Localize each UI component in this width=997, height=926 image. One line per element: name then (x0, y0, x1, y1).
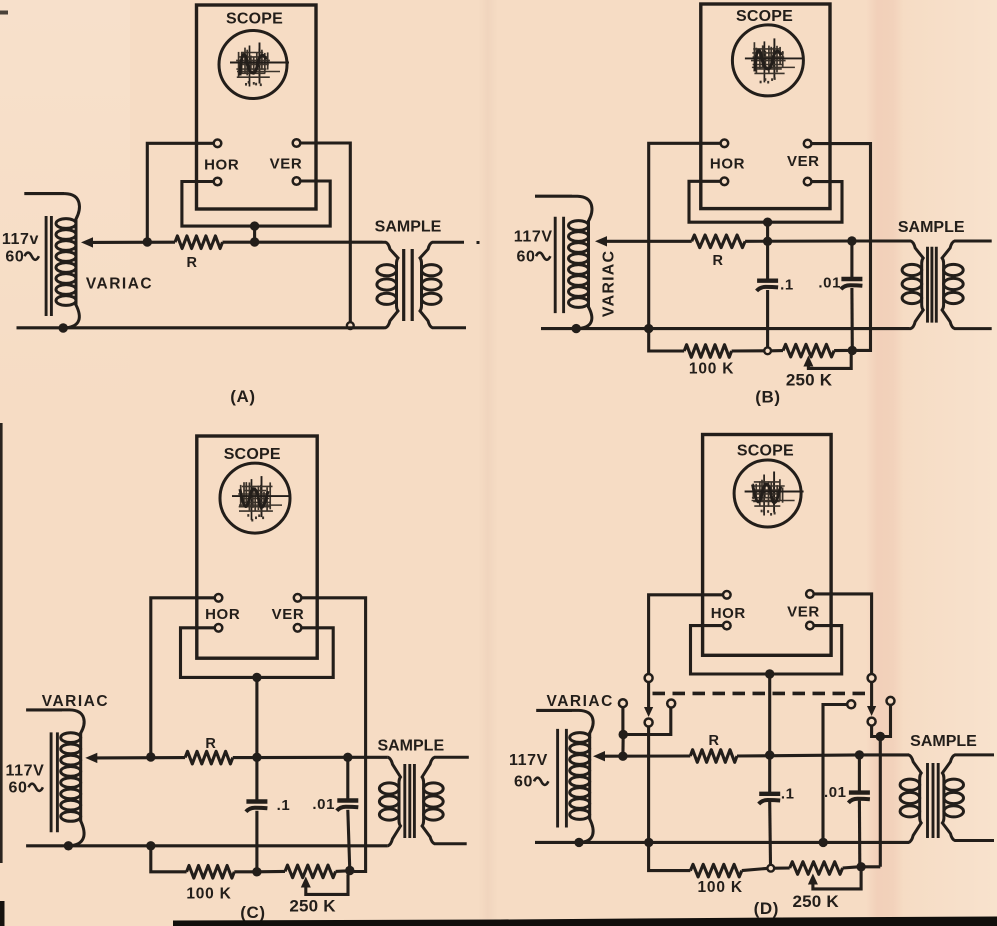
junction S2 branch (D) (876, 732, 885, 741)
wire arrow to resistor R (A) (92, 241, 175, 244)
wire .01 cap top lead (B) (850, 241, 853, 279)
label 60-cycle sine (C) (29, 784, 43, 791)
sample T2 primary winding (B) (902, 241, 923, 329)
junction variac bottom / rail (A) (59, 323, 68, 332)
variac primary stub top (B) (535, 195, 572, 198)
svg-text:(C): (C) (240, 903, 265, 922)
switch S2 pole contact (D) (868, 674, 876, 682)
switch S2 throw contact right (D) (887, 697, 895, 705)
scope U1 (panel A) enclosure (197, 5, 317, 209)
svg-text:HOR: HOR (205, 606, 240, 623)
wire S1 branch down to R wire (D) (621, 735, 624, 757)
wire R to .01 node (D) (737, 755, 859, 756)
junction scope-loop / R wire (A) (250, 237, 259, 246)
resistor 100K (D) (690, 864, 741, 877)
svg-text:HOR: HOR (710, 156, 745, 173)
CRT trace scribble (A) (230, 43, 289, 87)
svg-text:VARIAC: VARIAC (42, 693, 109, 710)
scan artifact: bottom black bar (next page edge) (173, 917, 997, 926)
wire S1 contact connector (D) (623, 708, 671, 735)
junction on inner loop (B) (763, 218, 772, 227)
scan artifact: top-left edge dash (0, 11, 8, 15)
scan artifact: left edge black strip (0, 423, 3, 863)
stray mark right of sample stub (A) (477, 241, 480, 244)
junction .01 cap / R wire (C) (343, 753, 352, 762)
svg-text:VARIAC: VARIAC (601, 250, 618, 317)
junction variac bottom / rail (C) (64, 841, 73, 850)
terminal HOR-top (D) (723, 591, 731, 599)
terminal VER-top (D) (806, 590, 814, 598)
CRT trace scribble (C) (232, 476, 291, 521)
resistor R (B) (692, 235, 745, 248)
250K wiper wire (B) (808, 354, 851, 368)
variac T1 winding (B) (569, 196, 592, 328)
wire junction to 250K (B) (771, 349, 783, 352)
sample T2 secondary winding (A) (420, 242, 466, 328)
bottom rail (A) (17, 326, 385, 329)
wire loop junction down to R wire (C) (255, 677, 258, 757)
bottom rail (B) (541, 327, 909, 330)
terminal HOR-top (C) (215, 594, 223, 602)
wire junction to 250K (C) (257, 870, 285, 873)
terminal VER-bottom (B) (804, 178, 812, 186)
wire inner loop HOR-bottom to VER-bottom (A) (182, 181, 330, 226)
wire 100K to pot (B) (732, 349, 764, 352)
capacitor .1 (C) (246, 802, 268, 812)
variac T1 winding (A) (56, 194, 79, 328)
dashed mechanical link S1-S2 (D) (653, 692, 872, 696)
svg-text:R: R (186, 255, 197, 271)
svg-text:SAMPLE: SAMPLE (375, 218, 442, 235)
svg-text:100 K: 100 K (186, 886, 231, 903)
wire 100K to junction (C) (234, 870, 257, 873)
svg-text:R: R (708, 733, 719, 749)
wire switch S1 down to rail and 100K (D) (649, 727, 691, 871)
wire R to .01 node (C) (233, 756, 348, 759)
scope CRT screen (C) (220, 463, 290, 533)
variac primary stub top (A) (24, 192, 64, 195)
wire loop junction down to R wire (D) (768, 674, 771, 755)
scope CRT screen (D) (734, 460, 801, 527)
variac wiper arrow (D) (593, 751, 605, 761)
250K wiper arrow (C) (301, 877, 311, 888)
junction on inner loop (C) (252, 673, 261, 682)
svg-text:60: 60 (514, 773, 533, 790)
resistor 100K (B) (684, 345, 731, 358)
label 60-cycle sine (A) (25, 253, 39, 260)
CRT trace scribble (B) (745, 38, 804, 83)
junction 250K right / .01 / VER (B) (848, 346, 857, 355)
resistor 100K (C) (187, 866, 235, 879)
svg-text:250 K: 250 K (793, 892, 840, 911)
svg-text:60: 60 (517, 248, 536, 265)
variac wiper arrow (C) (85, 753, 97, 763)
junction .01 cap / R wire (D) (855, 750, 864, 759)
svg-text:VARIAC: VARIAC (547, 693, 614, 710)
svg-text:60: 60 (5, 248, 24, 265)
wire 250K ext to switch branch (D) (861, 865, 880, 868)
scope U3 (panel C) enclosure (197, 436, 317, 658)
wire .01 cap top lead (D) (858, 755, 861, 793)
terminal VER-top (B) (804, 140, 812, 148)
svg-text:100 K: 100 K (698, 879, 743, 896)
wire arrow to resistor R (C) (96, 756, 185, 759)
sample T2 core (D) (928, 763, 939, 838)
terminal HOR-bottom (A) (214, 178, 222, 186)
svg-text:VER: VER (272, 606, 305, 623)
CRT trace scribble (D) (745, 472, 804, 516)
svg-text:117V: 117V (5, 763, 44, 780)
resistor R (A) (175, 236, 223, 249)
svg-text:R: R (205, 736, 216, 752)
junction on inner loop (A) (250, 221, 259, 230)
junction circle VER wire on rail (A) (347, 322, 354, 329)
svg-text:117V: 117V (514, 229, 553, 246)
resistor R (C) (185, 751, 233, 764)
wire .01 cap top lead (C) (346, 757, 349, 800)
sample T2 primary winding (A) (377, 242, 398, 328)
wire .1 cap bottom lead (D) (768, 802, 772, 865)
bottom rail (D) (535, 841, 909, 844)
junction S1 branch / R wire (D) (618, 752, 627, 761)
wire .1 cap top lead (C) (255, 757, 258, 801)
sample T2 core (B) (928, 247, 937, 323)
terminal HOR-bottom (C) (215, 624, 223, 632)
junction circle 100K/250K/.1 (D) (767, 865, 774, 872)
junction scope-loop / R wire (C) (252, 753, 261, 762)
wire VER-top to bottom rail (A) (300, 143, 350, 322)
sample T2 primary winding (D) (900, 755, 921, 843)
wire arrow to resistor R (B) (606, 240, 692, 243)
junction scope-loop / R wire (B) (763, 237, 772, 246)
250K wiper arrow (D) (808, 874, 818, 885)
junction circle 100K/250K/.1 (B) (764, 347, 771, 354)
wire .01 cap bottom lead (C) (348, 810, 350, 871)
variac primary stub top (C) (26, 708, 62, 711)
svg-text:VARIAC: VARIAC (86, 276, 153, 293)
wire S2 right contact down (D) (884, 705, 891, 737)
svg-text:SAMPLE: SAMPLE (898, 219, 965, 236)
wire 250K right end (D) (843, 867, 857, 868)
scan artifact: bottom-left corner mark (0, 901, 5, 926)
wire rail down to 100K (C) (151, 846, 187, 872)
svg-text:.1: .1 (781, 786, 795, 803)
junction rail / 100K stub (C) (146, 841, 155, 850)
svg-text:VER: VER (787, 604, 820, 621)
wire .01 node to sample primary (B) (852, 239, 909, 242)
switch S1 throw contact right (D) (667, 700, 675, 708)
wire 100K to junction (D) (742, 868, 767, 870)
svg-text:.1: .1 (780, 277, 794, 294)
junction 100K/250K/.1 (C) (252, 867, 261, 876)
terminal VER-top (A) (293, 139, 301, 147)
terminal HOR-bottom (B) (721, 178, 729, 186)
junction switch wire / bottom rail (D) (644, 838, 653, 847)
sample T2 primary winding (C) (379, 757, 400, 846)
terminal HOR-top (A) (214, 140, 222, 148)
wire HOR-top to node left (A) (147, 143, 213, 242)
wire loop junction down to R wire (A) (253, 226, 256, 242)
switch S2 throw contact left (D) (847, 700, 855, 708)
svg-text:R: R (712, 253, 723, 269)
250K wiper arrow (B) (803, 356, 813, 367)
wire .1 cap top lead (D) (768, 755, 771, 794)
svg-text:117V: 117V (509, 752, 548, 769)
svg-text:HOR: HOR (711, 605, 746, 622)
variac T1 core (C) (51, 732, 57, 832)
junction S2-left wire / rail (D) (819, 838, 828, 847)
variac wiper arrow (B) (595, 236, 607, 246)
scope CRT screen (A) (219, 31, 287, 99)
scope CRT screen (B) (732, 25, 803, 96)
svg-text:SCOPE: SCOPE (736, 8, 793, 25)
svg-text:250 K: 250 K (289, 897, 336, 916)
wire R to .01 node (B) (745, 239, 852, 242)
label 60-cycle sine (B) (536, 253, 550, 260)
wire junction to 250K (D) (774, 866, 789, 869)
250K wiper wire (D) (813, 871, 861, 889)
capacitor .01 (C) (337, 801, 359, 811)
junction HOR wire / bottom rail (B) (644, 324, 653, 333)
svg-text:250 K: 250 K (786, 371, 833, 390)
capacitor .01 (D) (848, 793, 870, 803)
switch S2 blade arrowhead (D) (867, 706, 876, 716)
wire .01 node to sample primary (D) (859, 753, 909, 756)
wire .01 cap bottom lead (D) (858, 801, 861, 867)
wire .01 node to sample primary (C) (348, 756, 388, 759)
junction on inner loop (D) (765, 669, 774, 678)
svg-text:(B): (B) (755, 388, 780, 407)
svg-text:SCOPE: SCOPE (737, 443, 794, 460)
svg-text:60: 60 (9, 779, 28, 796)
svg-text:.01: .01 (824, 784, 847, 801)
junction .01 cap / R wire (B) (847, 236, 856, 245)
svg-text:SAMPLE: SAMPLE (910, 733, 977, 750)
wire .1 cap bottom lead (B) (766, 290, 769, 347)
svg-text:.01: .01 (818, 275, 841, 292)
wire HOR-top left and down to switch pole (D) (649, 595, 723, 674)
variac T1 core (B) (555, 217, 563, 313)
variac primary stub top (D) (536, 709, 572, 712)
switch S1 blade arrowhead (D) (644, 707, 653, 717)
svg-text:(D): (D) (754, 899, 779, 918)
junction variac bottom / rail (D) (574, 838, 583, 847)
svg-text:SAMPLE: SAMPLE (377, 737, 444, 754)
capacitor .1 (D) (759, 794, 781, 804)
wire HOR-top left and down to R wire (C) (151, 598, 215, 757)
potentiometer 250K element (B) (783, 344, 834, 357)
junction HOR wire / R wire (A) (143, 237, 152, 246)
svg-text:SCOPE: SCOPE (226, 11, 283, 28)
wire .01 cap bottom lead (B) (850, 288, 853, 350)
switch S1 pole contact (D) (645, 674, 653, 682)
wire arrow to resistor R (D) (604, 754, 690, 757)
potentiometer 250K element (D) (790, 862, 843, 875)
wire .1 cap top lead (B) (766, 241, 769, 281)
potentiometer 250K element (C) (285, 865, 336, 878)
wire R to sample primary (A) (223, 241, 383, 244)
sample T2 secondary winding (C) (422, 757, 469, 844)
svg-text:VER: VER (270, 156, 303, 173)
terminal VER-bottom (C) (294, 624, 302, 632)
variac T1 core (A) (46, 216, 51, 316)
junction variac bottom / rail (B) (572, 324, 581, 333)
svg-text:100 K: 100 K (689, 361, 734, 378)
svg-text:.01: .01 (312, 796, 335, 813)
capacitor .1 (B) (757, 281, 779, 291)
bottom rail (C) (26, 844, 388, 847)
terminal VER-bottom (A) (293, 177, 301, 185)
wire inner loop HOR-bottom to VER-bottom (C) (181, 628, 334, 678)
wire S2 left contact to rail (D) (823, 705, 847, 842)
switch S1 throw contact left (D) (619, 699, 627, 707)
wire VER-top right and down to switch S2 pole (D) (814, 594, 872, 674)
terminal VER-bottom (D) (806, 622, 814, 630)
junction 250K right / .01 (D) (856, 862, 865, 871)
capacitor .01 (B) (841, 279, 863, 289)
terminal VER-top (C) (294, 594, 302, 602)
terminal HOR-bottom (D) (723, 622, 731, 630)
terminal HOR-top (B) (721, 140, 729, 148)
wire VER-top right and down (B) (812, 144, 871, 351)
variac wiper arrow (A) (81, 237, 93, 247)
resistor R (D) (690, 750, 737, 763)
junction HOR wire / R wire (C) (146, 752, 155, 761)
svg-text:VER: VER (787, 153, 820, 170)
svg-text:HOR: HOR (204, 157, 239, 174)
variac T1 winding (D) (570, 710, 593, 842)
wire inner loop HOR-bottom to VER-bottom (B) (689, 181, 842, 222)
sample T2 secondary winding (B) (942, 241, 992, 329)
scope U4 (panel D) enclosure (703, 435, 832, 656)
scope U2 (panel B) enclosure (701, 4, 830, 209)
sample T2 core (C) (405, 764, 415, 838)
wire S1 left contact down (D) (621, 707, 624, 734)
wire inner loop HOR-bottom to VER-bottom (D) (691, 626, 842, 674)
junction S1 branch (D) (619, 730, 628, 739)
junction scope-loop / R wire (D) (765, 750, 774, 759)
svg-text:SCOPE: SCOPE (224, 446, 281, 463)
switch S1 blade (D) (647, 682, 650, 707)
svg-text:(A): (A) (230, 387, 255, 406)
wire 250K right end (C) (336, 869, 346, 873)
wire S2 branch down to 250K right (D) (879, 737, 882, 867)
250K wiper wire (C) (306, 874, 348, 894)
svg-text:.1: .1 (277, 797, 291, 814)
wire S2 lower contact to branch (D) (872, 726, 877, 737)
switch S1 throw contact lower (D) (645, 719, 653, 727)
label 60-cycle sine (D) (534, 778, 548, 785)
junction 250K right / .01 / VER (C) (345, 866, 354, 875)
variac T1 core (D) (558, 729, 567, 828)
wire HOR-top left and down to 100K (B) (649, 143, 721, 351)
variac T1 winding (C) (61, 710, 84, 846)
wire .1 cap bottom lead (C) (255, 811, 258, 872)
svg-text:117v: 117v (2, 231, 39, 248)
sample T2 core (A) (404, 249, 413, 321)
wire 250K right end (B) (834, 349, 848, 352)
wire loop junction down to R wire (B) (766, 222, 769, 241)
switch S2 throw contact lower (D) (868, 718, 876, 726)
sample T2 secondary winding (D) (942, 755, 994, 841)
switch S2 blade (D) (870, 682, 873, 706)
wire VER-top right and down to 250K node (C) (302, 598, 366, 872)
